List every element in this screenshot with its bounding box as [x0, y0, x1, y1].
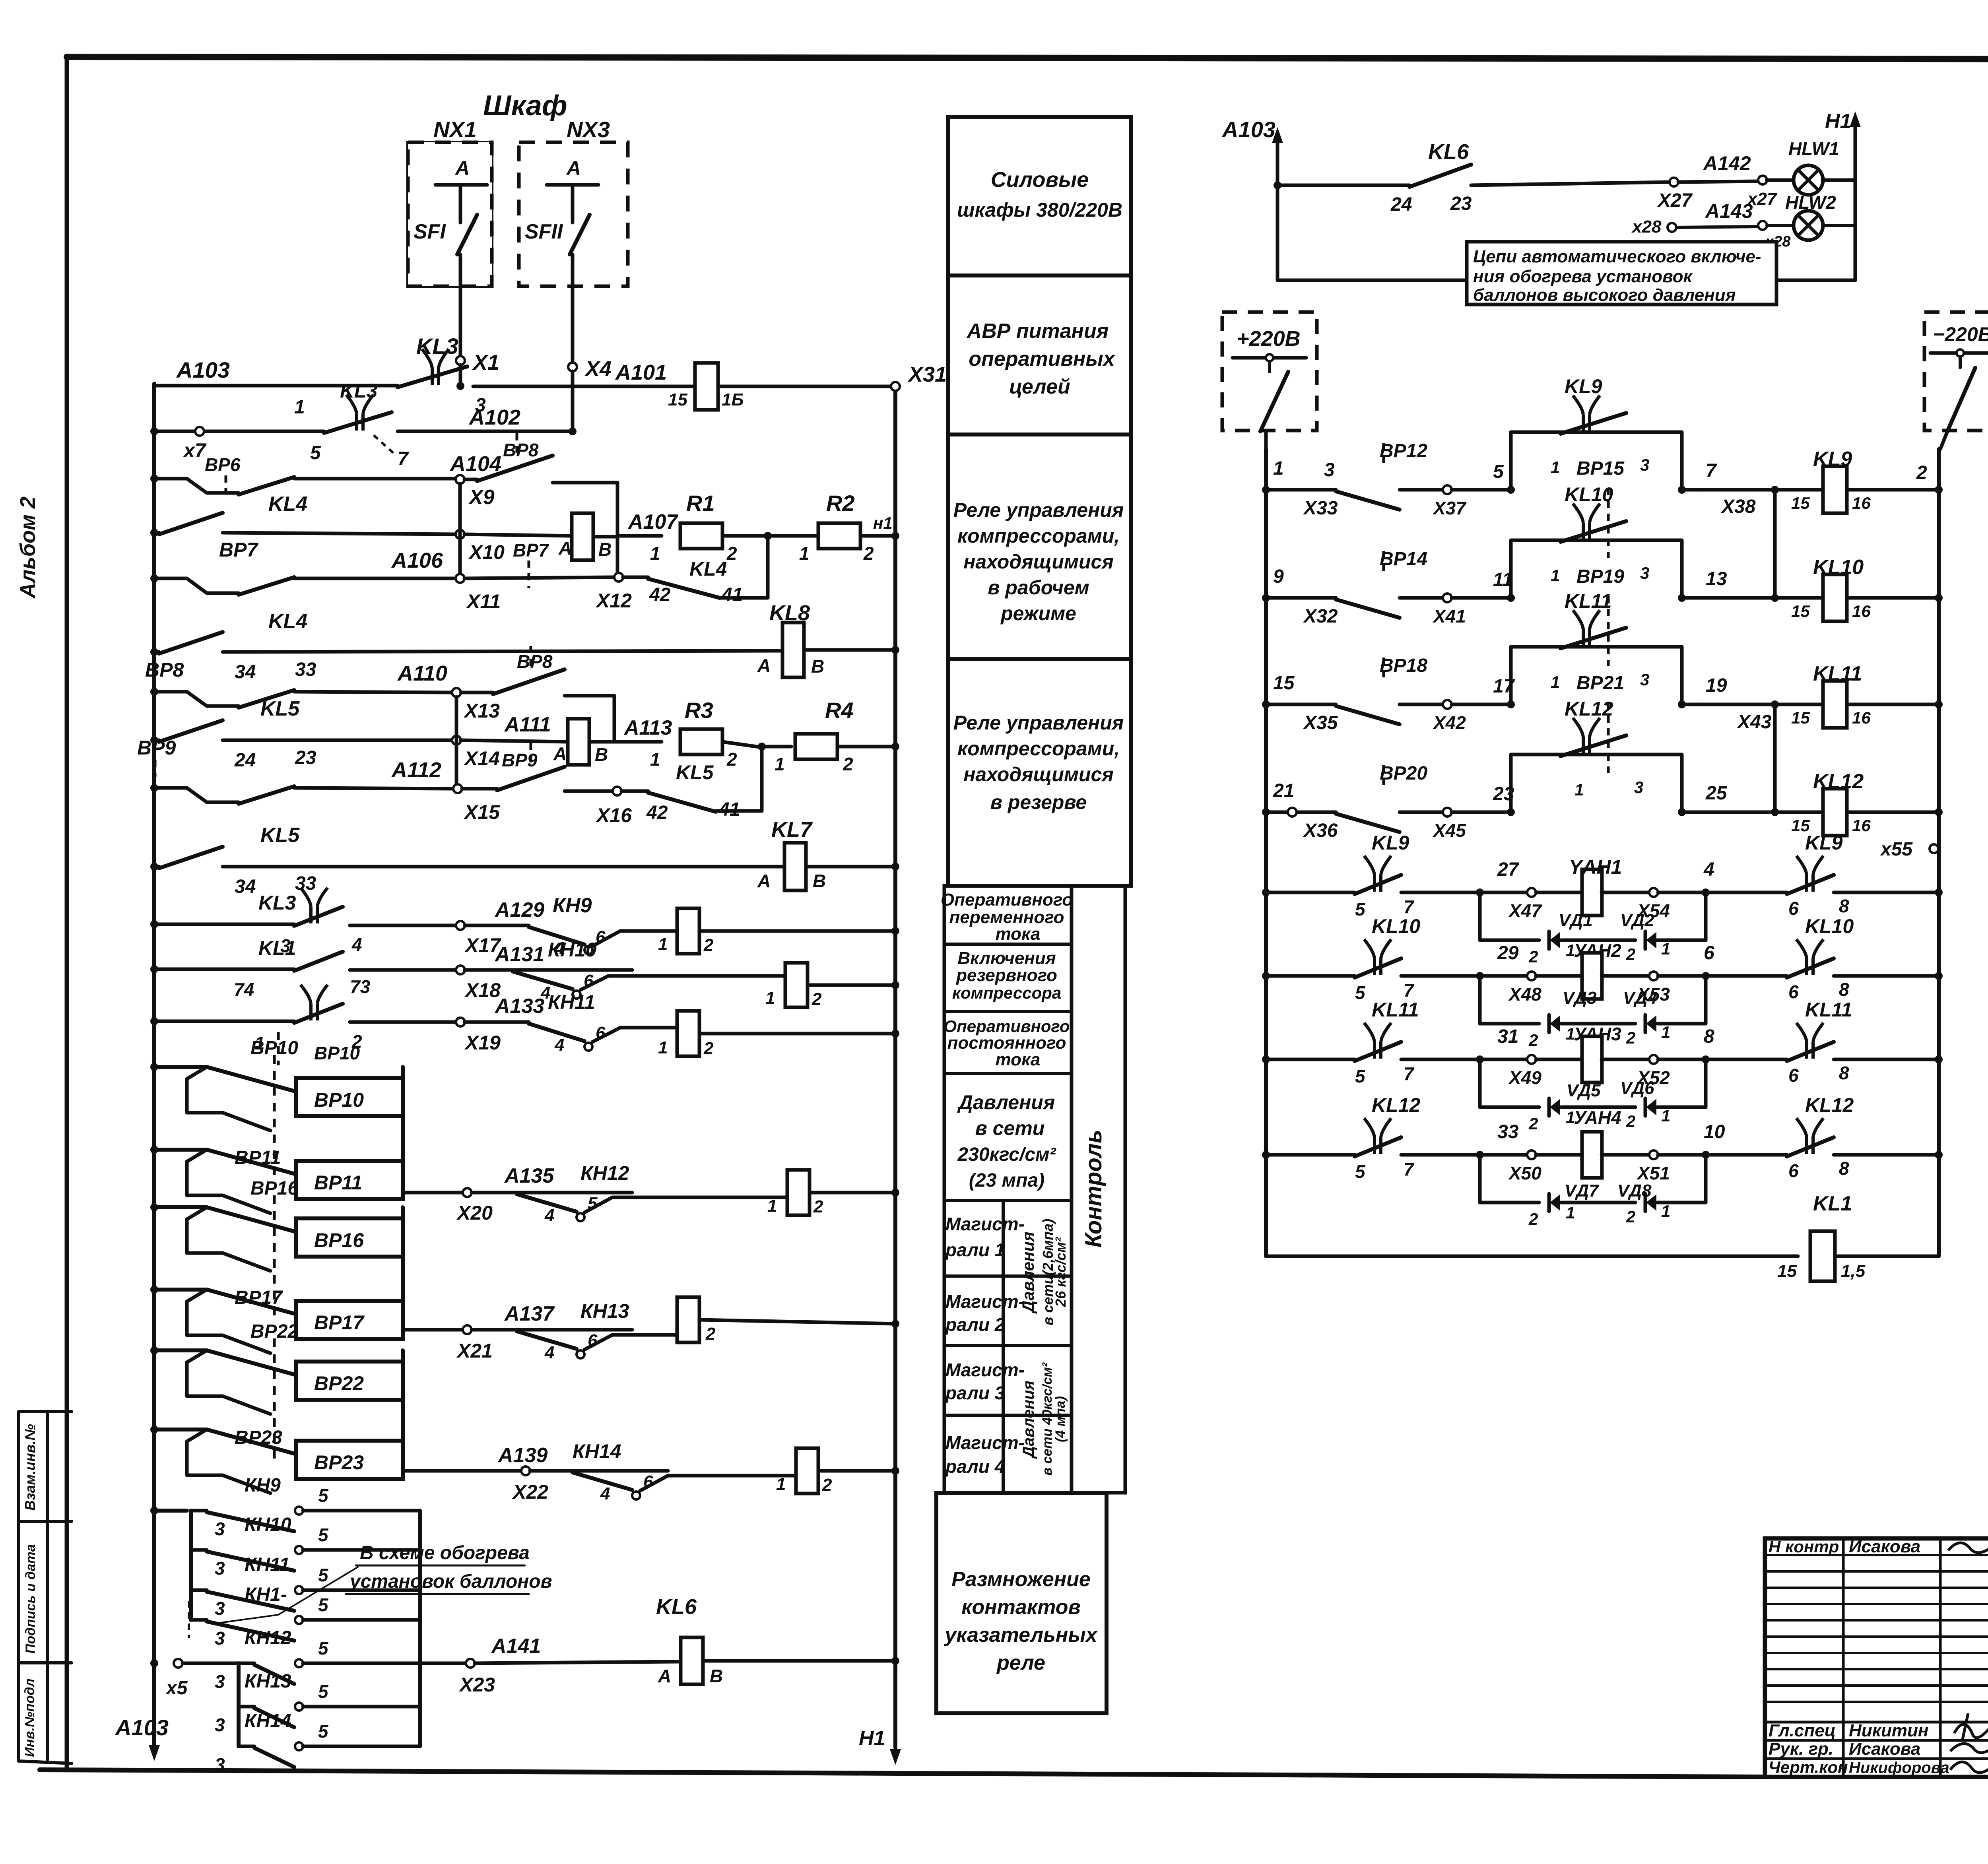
rung KL12 line4 [1262, 808, 1270, 816]
svg-text:КН14: КН14 [245, 1711, 291, 1732]
svg-text:А135: А135 [504, 1164, 554, 1187]
svg-text:В: В [598, 539, 612, 560]
svg-text:X43: X43 [1736, 712, 1772, 733]
svg-text:KL5: KL5 [260, 824, 300, 847]
svg-text:Включения: Включения [957, 948, 1056, 968]
svg-text:42: 42 [646, 802, 668, 823]
svg-text:А102: А102 [468, 405, 520, 429]
pressure switch group BP22/BP23 [401, 1350, 405, 1471]
contact KL5 42-41 [621, 789, 648, 793]
svg-text:X36: X36 [1303, 820, 1338, 841]
contact KL4 rung6 [159, 632, 223, 654]
svg-text:Реле управления: Реле управления [953, 499, 1124, 521]
svg-text:31: 31 [1497, 1026, 1518, 1047]
svg-text:5: 5 [318, 1721, 329, 1742]
junction R1-R2 [764, 532, 772, 540]
svg-text:74: 74 [234, 979, 254, 1000]
svg-text:2: 2 [812, 989, 822, 1009]
svg-text:1: 1 [650, 749, 660, 770]
svg-text:ВР8: ВР8 [145, 659, 184, 681]
svg-text:X41: X41 [1432, 606, 1466, 627]
svg-text:Н1: Н1 [1825, 110, 1851, 133]
svg-text:ВР9: ВР9 [137, 737, 176, 759]
svg-text:KL11: KL11 [1372, 999, 1419, 1021]
svg-text:4: 4 [554, 1035, 564, 1055]
svg-text:2: 2 [822, 1475, 832, 1495]
connector X15 [453, 784, 462, 793]
svg-text:тока: тока [996, 1050, 1041, 1069]
svg-text:8: 8 [1839, 979, 1849, 1000]
svg-text:реле: реле [996, 1651, 1045, 1674]
svg-text:KL12: KL12 [1805, 1094, 1854, 1116]
svg-text:X1: X1 [472, 351, 499, 374]
rung A104 [154, 477, 187, 481]
svg-text:Магист-: Магист- [945, 1214, 1025, 1234]
svg-text:KL9: KL9 [1805, 832, 1843, 854]
svg-text:4: 4 [544, 1343, 554, 1362]
svg-text:7: 7 [1404, 980, 1415, 1001]
svg-text:VД1: VД1 [1559, 911, 1593, 930]
svg-text:1: 1 [765, 988, 775, 1008]
resistor R3 [614, 740, 662, 744]
svg-text:2: 2 [1528, 947, 1538, 966]
contact KL7 rung12 [294, 952, 343, 971]
contact КН13 [239, 1705, 254, 1709]
svg-text:ВР14: ВР14 [1380, 549, 1427, 570]
svg-text:R3: R3 [685, 698, 713, 723]
junction X4 drop [569, 427, 577, 435]
rung A129 [154, 923, 294, 926]
svg-text:R2: R2 [826, 491, 855, 516]
svg-text:KL12: KL12 [1565, 698, 1613, 720]
svg-text:А104: А104 [449, 452, 501, 476]
svg-text:24: 24 [1390, 194, 1412, 215]
svg-text:1: 1 [650, 543, 660, 564]
rung YAH1 [1262, 888, 1270, 896]
svg-text:2: 2 [1528, 1210, 1538, 1228]
svg-text:4: 4 [1703, 859, 1714, 880]
svg-text:8: 8 [1839, 1158, 1849, 1179]
svg-text:4: 4 [600, 1484, 610, 1503]
svg-text:КН12: КН12 [580, 1162, 629, 1184]
svg-text:2: 2 [726, 543, 737, 564]
drawing frame [67, 57, 1988, 60]
svg-text:X23: X23 [458, 1674, 495, 1696]
svg-text:6: 6 [1788, 1160, 1799, 1181]
rung A107 [154, 531, 159, 535]
svg-text:7: 7 [1404, 1159, 1415, 1179]
resistor R2 [768, 534, 818, 538]
lamp circuit bottom line [1277, 279, 1467, 282]
svg-text:5: 5 [310, 442, 321, 464]
svg-text:8: 8 [1839, 1063, 1849, 1083]
svg-text:3: 3 [1324, 460, 1335, 481]
svg-text:4: 4 [351, 934, 362, 955]
svg-text:А: А [566, 157, 581, 179]
svg-text:KL11: KL11 [1565, 590, 1612, 612]
svg-text:6: 6 [1704, 943, 1714, 964]
svg-text:X4: X4 [584, 357, 612, 381]
svg-text:1: 1 [1661, 1023, 1670, 1042]
svg-text:VД7: VД7 [1565, 1181, 1600, 1201]
svg-text:NX1: NX1 [433, 117, 477, 142]
svg-text:X10: X10 [468, 541, 505, 563]
svg-text:x28: x28 [1631, 217, 1662, 237]
svg-text:5: 5 [318, 1485, 329, 1506]
svg-text:баллонов высокого давления: баллонов высокого давления [1473, 285, 1736, 305]
svg-text:3: 3 [215, 1671, 225, 1692]
contact КН9 [191, 1509, 207, 1513]
left supply bus A103 [152, 384, 156, 1749]
svg-text:Давления: Давления [1020, 1381, 1037, 1459]
svg-text:А103: А103 [176, 357, 230, 382]
svg-text:5: 5 [1355, 899, 1366, 919]
svg-text:Гл.спец: Гл.спец [1769, 1721, 1836, 1740]
connector X12 [614, 573, 623, 582]
rung YAH4 [1262, 1151, 1270, 1159]
contact КН1- [191, 1618, 207, 1622]
svg-text:2: 2 [863, 543, 874, 564]
svg-text:рали 1: рали 1 [945, 1239, 1005, 1260]
svg-text:ВР8: ВР8 [517, 651, 553, 672]
rung A137/KH13 [403, 1328, 463, 1332]
svg-text:ВР21: ВР21 [1576, 673, 1624, 694]
right ladder left bus [1264, 449, 1268, 1256]
svg-text:Исакова: Исакова [1849, 1739, 1920, 1759]
svg-text:А: А [757, 871, 771, 891]
svg-text:3: 3 [215, 1754, 225, 1775]
svg-text:ВР16: ВР16 [314, 1229, 364, 1251]
svg-text:1: 1 [1551, 458, 1560, 477]
rung KL8 [154, 650, 159, 654]
svg-text:5: 5 [318, 1525, 329, 1545]
svg-text:ВР10: ВР10 [314, 1089, 364, 1111]
svg-text:Силовые: Силовые [991, 168, 1089, 192]
connector X27a [1670, 178, 1678, 186]
svg-text:ВР23: ВР23 [314, 1451, 364, 1474]
contact BP8 top [464, 478, 477, 481]
svg-text:УАН4: УАН4 [1574, 1107, 1621, 1128]
svg-text:установок баллонов: установок баллонов [349, 1571, 552, 1592]
svg-text:16: 16 [1852, 494, 1871, 512]
svg-text:+220В: +220В [1237, 327, 1301, 351]
svg-text:Цепи автоматического включе-: Цепи автоматического включе- [1473, 247, 1761, 266]
svg-text:А143: А143 [1705, 200, 1753, 222]
rung KL10 line2 [1262, 594, 1270, 602]
svg-text:X14: X14 [463, 747, 500, 770]
svg-text:компрессора: компрессора [952, 983, 1062, 1002]
svg-text:находящимися: находящимися [963, 763, 1114, 786]
svg-text:2: 2 [1626, 1207, 1635, 1226]
svg-text:А142: А142 [1703, 152, 1751, 175]
contact KL5 rung10 [159, 847, 223, 868]
svg-text:KL1: KL1 [1813, 1192, 1852, 1215]
svg-text:А103: А103 [1221, 117, 1276, 142]
resistor R1 [617, 534, 662, 538]
svg-text:Взам.инв.№: Взам.инв.№ [22, 1424, 38, 1511]
svg-text:5: 5 [1493, 461, 1504, 482]
connector X11 [456, 574, 464, 583]
svg-text:А101: А101 [615, 361, 667, 384]
svg-text:Давления: Давления [957, 1091, 1055, 1113]
svg-text:KL7: KL7 [771, 818, 813, 842]
svg-text:3: 3 [215, 1628, 225, 1649]
svg-text:1,5: 1,5 [1841, 1261, 1866, 1281]
svg-text:230кгс/см²: 230кгс/см² [957, 1144, 1056, 1165]
svg-text:1: 1 [799, 543, 810, 564]
svg-text:КН14: КН14 [573, 1440, 621, 1462]
svg-text:KL9: KL9 [1372, 832, 1409, 854]
contact KL4 42-41 [623, 576, 648, 579]
node X1 [456, 356, 465, 365]
svg-text:в рабочем: в рабочем [988, 576, 1089, 599]
svg-text:тока: тока [996, 924, 1041, 944]
svg-text:Контроль: Контроль [1081, 1130, 1107, 1248]
relay coil KH11 [677, 1011, 699, 1056]
svg-text:YАН1: YАН1 [1569, 856, 1622, 878]
right ladder right bus [1937, 449, 1941, 1256]
svg-text:указательных: указательных [944, 1623, 1098, 1647]
svg-text:(4 мпа): (4 мпа) [1053, 1396, 1068, 1442]
connector X13 [452, 688, 461, 697]
svg-text:Альбом 2: Альбом 2 [16, 497, 40, 599]
svg-text:резервного: резервного [956, 966, 1057, 985]
svg-text:3: 3 [215, 1519, 225, 1539]
svg-text:А106: А106 [391, 549, 443, 572]
svg-text:7: 7 [1404, 896, 1415, 917]
svg-text:15: 15 [1791, 494, 1810, 512]
svg-text:2: 2 [703, 935, 714, 955]
left margin stamp boxes [17, 1412, 20, 1761]
svg-text:23: 23 [1450, 193, 1472, 214]
svg-text:Магист-: Магист- [945, 1291, 1025, 1312]
svg-text:8: 8 [1839, 896, 1849, 916]
svg-text:SFΙΙ: SFΙΙ [525, 220, 563, 243]
bottom rung KL1 [1266, 1255, 1798, 1258]
svg-text:Размножение: Размножение [951, 1568, 1091, 1591]
connector X16 [613, 787, 621, 795]
svg-text:15: 15 [668, 390, 687, 409]
svg-text:В: В [710, 1666, 723, 1686]
svg-text:КН13: КН13 [580, 1300, 629, 1322]
pressure switch group BP10/BP11 [401, 1067, 405, 1191]
svg-text:КН13: КН13 [245, 1671, 291, 1692]
svg-text:компрессорами,: компрессорами, [957, 737, 1120, 760]
svg-text:Никифорова: Никифорова [1849, 1759, 1949, 1777]
svg-text:Магист-: Магист- [945, 1432, 1025, 1453]
svg-text:X21: X21 [456, 1340, 493, 1362]
svg-text:1: 1 [1566, 1203, 1575, 1222]
connector X14 [452, 736, 461, 745]
svg-text:А111: А111 [504, 713, 551, 736]
svg-text:3: 3 [1640, 456, 1649, 474]
svg-text:А129: А129 [494, 898, 544, 921]
svg-text:x7: x7 [182, 439, 207, 462]
svg-text:А133: А133 [494, 995, 544, 1018]
legend divider magistrali [1002, 1201, 1005, 1493]
svg-text:5: 5 [318, 1681, 329, 1702]
svg-text:X13: X13 [463, 700, 500, 722]
relay coil KH9 [677, 908, 699, 954]
svg-text:6: 6 [1788, 898, 1799, 919]
svg-text:KL10: KL10 [1805, 915, 1854, 937]
svg-text:X19: X19 [464, 1032, 501, 1054]
svg-text:VД5: VД5 [1567, 1081, 1601, 1100]
svg-text:2: 2 [843, 754, 853, 774]
relay coil KL5 [461, 740, 567, 742]
svg-text:X37: X37 [1432, 498, 1467, 518]
svg-text:42: 42 [649, 584, 671, 605]
contact KL3 rung11 [301, 888, 328, 923]
contact BP9 step [239, 786, 294, 804]
svg-text:2: 2 [703, 1039, 714, 1058]
resistor R4 [762, 745, 791, 749]
svg-text:Никитин: Никитин [1849, 1721, 1928, 1740]
svg-text:ВР22: ВР22 [314, 1372, 364, 1395]
svg-text:2: 2 [1626, 1112, 1635, 1131]
main title block [1765, 1538, 1988, 1777]
rung KL7 [154, 865, 159, 869]
svg-text:34: 34 [235, 661, 256, 683]
svg-text:Черт.кон: Черт.кон [1769, 1758, 1848, 1777]
svg-text:Подпись и дата: Подпись и дата [23, 1544, 38, 1654]
svg-text:X31: X31 [907, 363, 947, 386]
bus H1 arrow [894, 1725, 897, 1753]
relay coil KH13 [677, 1297, 699, 1342]
link X43 [1773, 704, 1777, 812]
svg-text:KL3: KL3 [340, 380, 378, 402]
contact КН11 [191, 1589, 207, 1592]
svg-text:Реле управления: Реле управления [953, 712, 1124, 734]
svg-text:ВР18: ВР18 [1380, 655, 1427, 676]
svg-text:А110: А110 [397, 661, 447, 685]
svg-text:3: 3 [215, 1598, 225, 1619]
svg-text:R1: R1 [686, 491, 715, 516]
rung A135/KH12 [403, 1191, 463, 1195]
rung A139/KH14 [403, 1469, 521, 1473]
svg-text:ВР15: ВР15 [1576, 458, 1625, 479]
svg-text:2: 2 [1528, 1031, 1538, 1049]
svg-text:Шкаф: Шкаф [483, 90, 567, 122]
relay coil KL3 [695, 363, 718, 410]
svg-text:Исакова: Исакова [1849, 1537, 1920, 1556]
svg-text:X45: X45 [1432, 820, 1466, 841]
svg-text:33: 33 [295, 659, 316, 680]
contact KL1 rung13 [301, 985, 328, 1020]
svg-text:Магист-: Магист- [945, 1360, 1025, 1380]
svg-text:1: 1 [1551, 566, 1560, 585]
svg-text:KL4: KL4 [689, 558, 727, 580]
svg-text:15: 15 [1791, 708, 1810, 727]
svg-text:А: А [553, 743, 567, 764]
svg-text:VД3: VД3 [1563, 988, 1597, 1008]
svg-text:1: 1 [1661, 1106, 1670, 1125]
relay coil KL4 [464, 534, 572, 536]
svg-text:2: 2 [1528, 1114, 1538, 1133]
link X38 [1773, 490, 1777, 598]
svg-text:7: 7 [1706, 460, 1717, 481]
svg-text:1Б: 1Б [722, 390, 744, 409]
svg-text:КН11: КН11 [548, 991, 595, 1013]
svg-text:3: 3 [215, 1558, 225, 1579]
svg-text:X49: X49 [1508, 1067, 1541, 1088]
bus H1 right [893, 392, 897, 1747]
svg-text:Давления: Давления [1019, 1232, 1037, 1314]
svg-text:X15: X15 [463, 801, 500, 823]
bus junction dots [150, 427, 158, 435]
power -220V [1924, 312, 1988, 431]
dashed outline KH1 [188, 1601, 190, 1638]
svg-text:ВР20: ВР20 [1380, 763, 1427, 784]
svg-text:KL6: KL6 [1428, 140, 1469, 164]
contact KL4 rung4 [159, 513, 223, 534]
svg-text:15: 15 [1273, 673, 1295, 694]
bus H1 lamp [1854, 123, 1857, 280]
svg-text:KL12: KL12 [1372, 1094, 1420, 1116]
svg-text:2: 2 [705, 1324, 716, 1344]
svg-text:ния обогрева установок: ния обогрева установок [1473, 267, 1693, 286]
svg-text:16: 16 [1852, 708, 1871, 727]
svg-text:KL10: KL10 [1565, 483, 1613, 506]
svg-text:4: 4 [544, 1206, 554, 1225]
svg-text:(23 мпа): (23 мпа) [969, 1170, 1044, 1191]
contact BP6 [239, 477, 294, 495]
svg-text:KL6: KL6 [656, 1595, 697, 1619]
svg-text:КН9: КН9 [553, 894, 592, 917]
svg-text:34: 34 [235, 876, 256, 897]
contact block KH9-KH14 [150, 1507, 158, 1515]
svg-text:15: 15 [1791, 602, 1810, 621]
svg-text:26 кгс/см²: 26 кгс/см² [1052, 1237, 1069, 1307]
svg-text:X51: X51 [1636, 1163, 1670, 1183]
callout box auto heating [1467, 242, 1776, 305]
svg-text:5: 5 [318, 1594, 329, 1615]
svg-text:А107: А107 [627, 510, 678, 533]
svg-text:А139: А139 [497, 1444, 547, 1467]
rung A131 [154, 968, 294, 971]
svg-text:16: 16 [1852, 602, 1871, 621]
svg-text:KL3: KL3 [258, 892, 296, 914]
svg-text:КН1-: КН1- [245, 1584, 287, 1605]
svg-text:2: 2 [1916, 462, 1927, 483]
svg-text:А: А [757, 655, 771, 676]
connector X31 [891, 382, 900, 391]
svg-text:ВР17: ВР17 [314, 1311, 365, 1334]
svg-text:рали 4: рали 4 [945, 1456, 1005, 1477]
svg-text:KL4: KL4 [268, 493, 307, 516]
svg-text:А112: А112 [391, 758, 441, 782]
svg-text:15: 15 [1777, 1261, 1797, 1281]
svg-text:X12: X12 [595, 590, 632, 612]
contact BP8 right [461, 691, 493, 694]
svg-text:HLW1: HLW1 [1788, 138, 1839, 159]
svg-text:1: 1 [294, 397, 305, 418]
svg-text:VД6: VД6 [1620, 1078, 1654, 1098]
svg-text:x55: x55 [1879, 839, 1913, 860]
svg-text:1: 1 [658, 935, 668, 954]
svg-text:1: 1 [1551, 673, 1560, 691]
svg-text:А: А [658, 1666, 671, 1686]
contact KL3 rung2 [346, 395, 373, 431]
svg-text:24: 24 [234, 750, 256, 771]
lamp circuit top line [1277, 184, 1409, 187]
svg-text:2: 2 [726, 749, 737, 770]
x5 connector and A141 rung [150, 1659, 158, 1667]
connector X17 [456, 921, 465, 930]
svg-text:контактов: контактов [961, 1596, 1081, 1619]
svg-text:R4: R4 [825, 698, 854, 723]
svg-text:КН10: КН10 [245, 1514, 291, 1535]
